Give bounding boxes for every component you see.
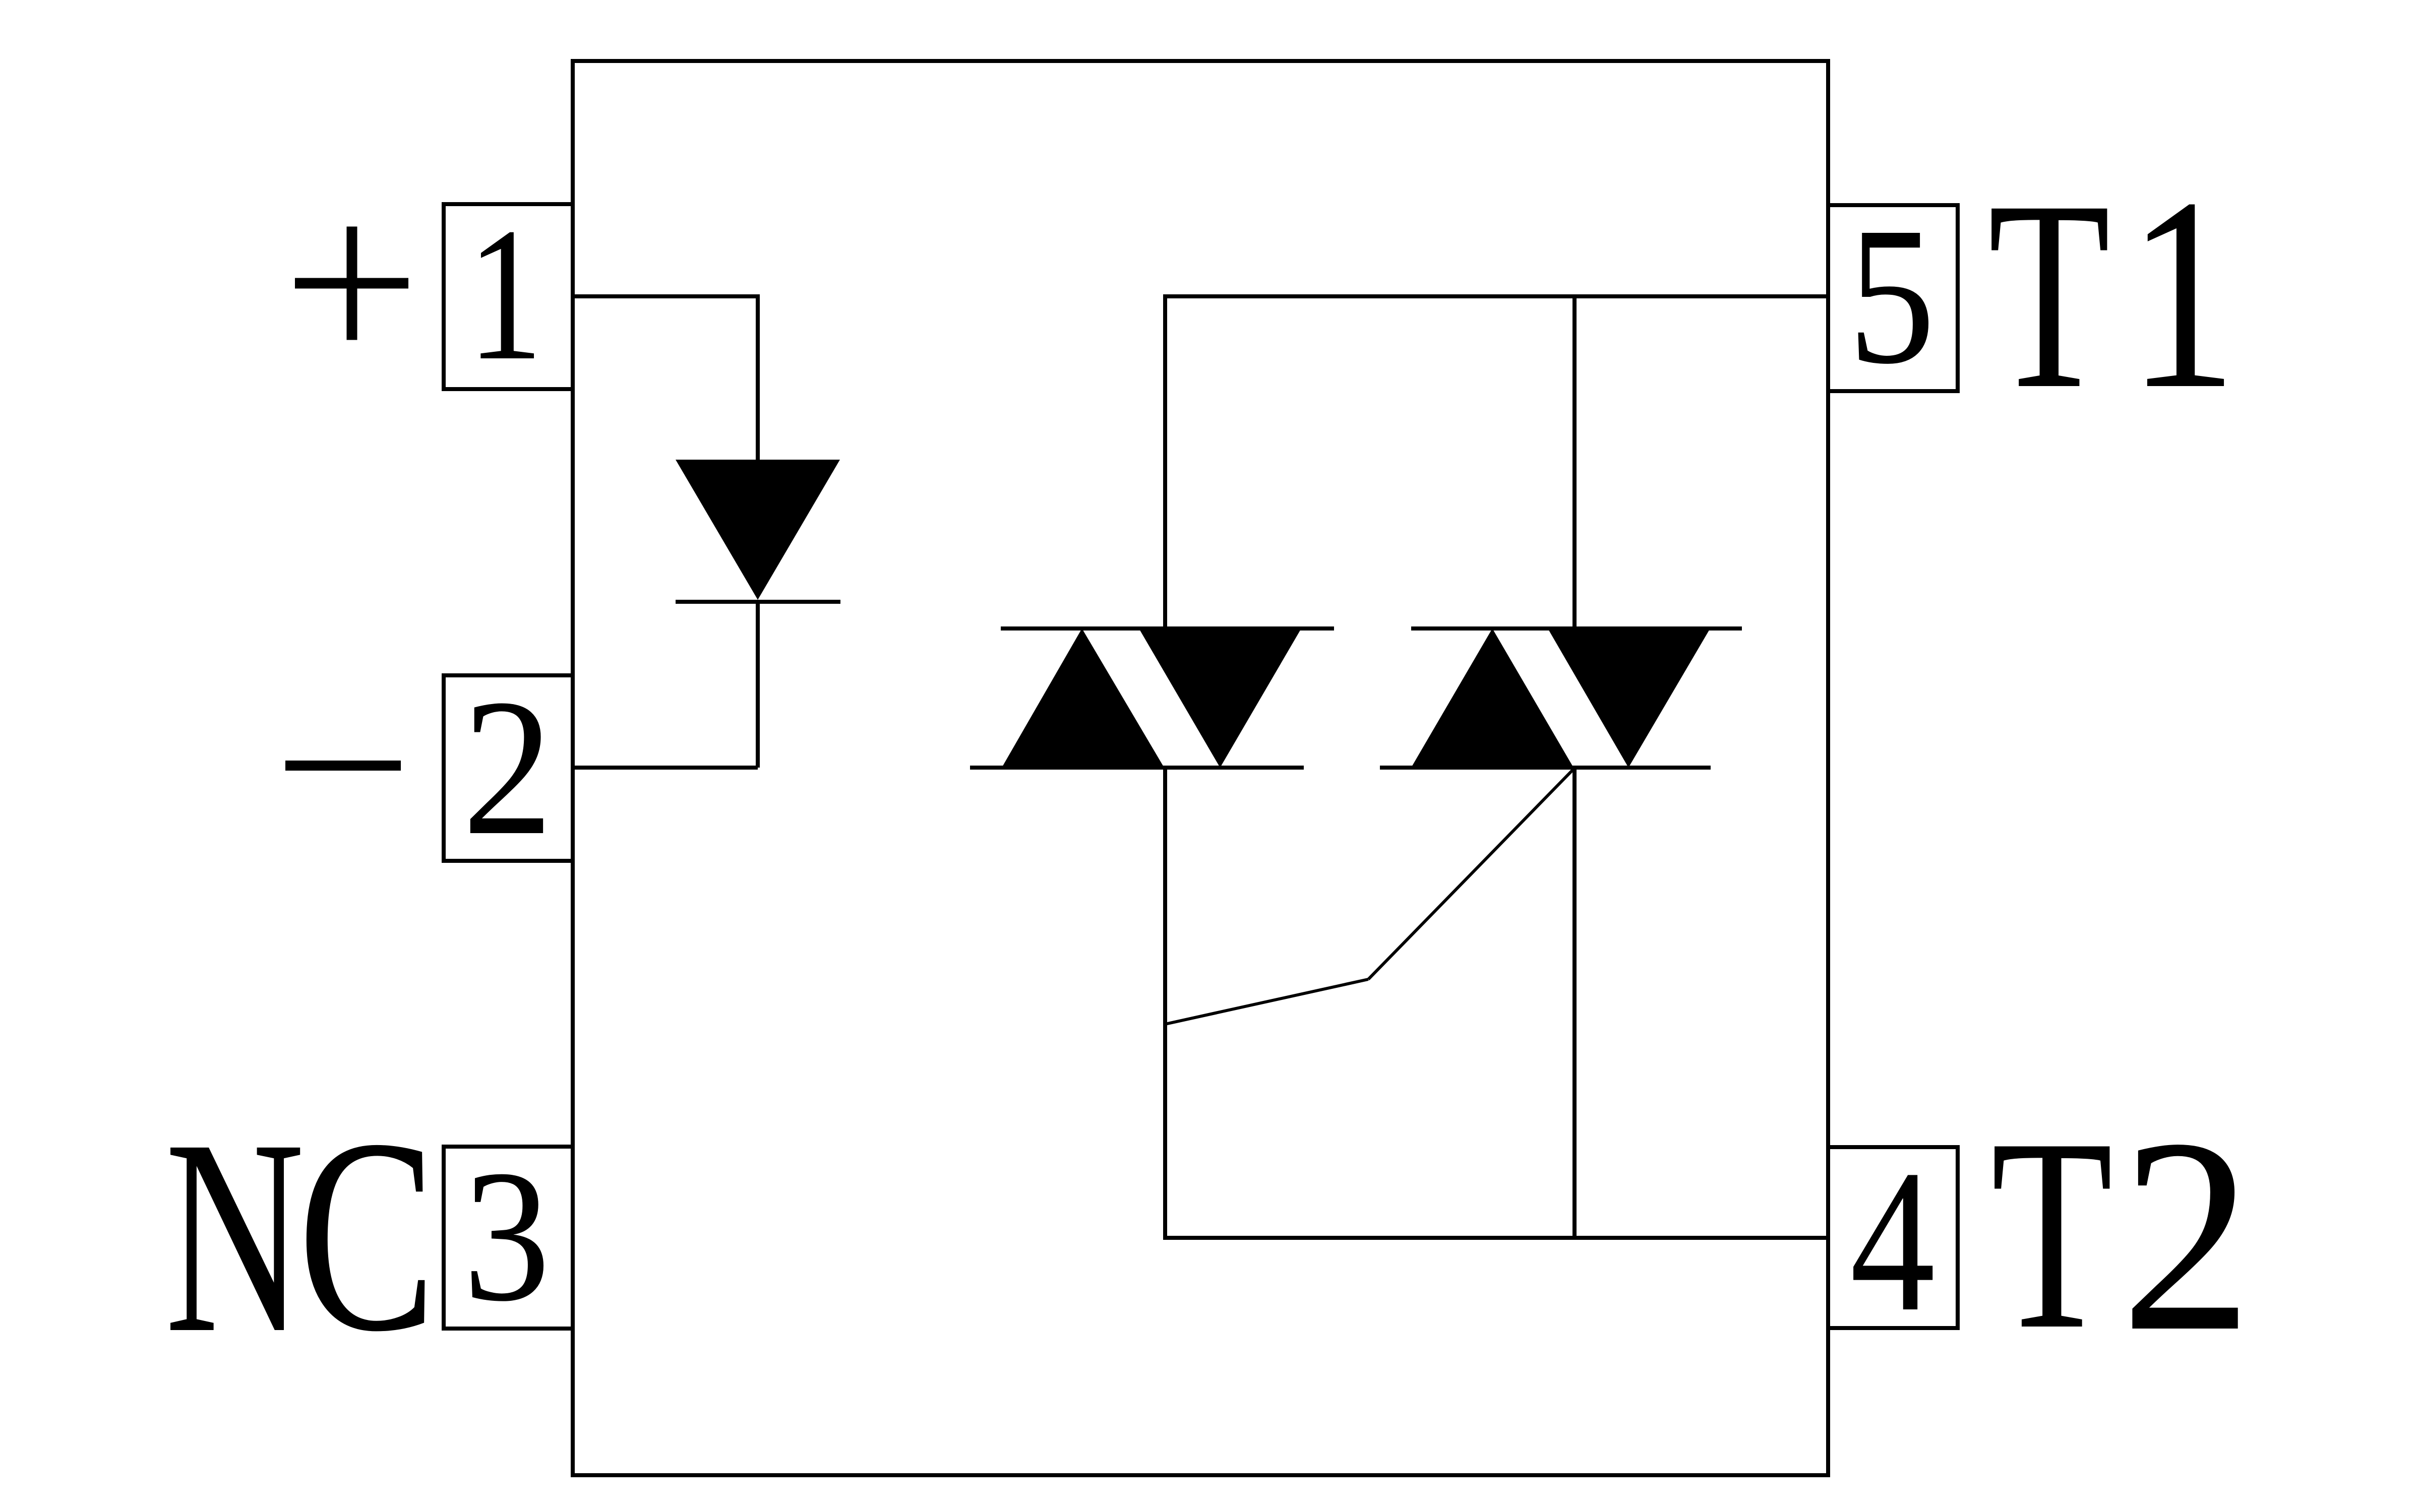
triac Q1 downward thyristor triangle bbox=[1139, 628, 1301, 768]
wire inner bottom rail to pin 4 bbox=[1165, 1236, 1828, 1240]
svg-text:2: 2 bbox=[462, 659, 553, 876]
label T1 bbox=[1988, 141, 2237, 446]
wire LED anode vertical bbox=[756, 294, 760, 460]
pin 4 box bbox=[1828, 1147, 1958, 1328]
wire LED cathode vertical bbox=[756, 602, 760, 768]
cathode label - bbox=[285, 761, 401, 771]
svg-text:5: 5 bbox=[1848, 186, 1935, 405]
triac Q2 downward thyristor triangle bbox=[1548, 628, 1710, 768]
triac Q1 MT1 rail bbox=[970, 766, 1304, 770]
triac Q1 MT2 rail bbox=[1001, 626, 1334, 631]
LED D1 cathode bar bbox=[676, 600, 840, 604]
wire inner left lower segment bbox=[1163, 768, 1167, 1240]
anode label + bbox=[295, 227, 408, 340]
triac Q2 MT2 rail bbox=[1411, 626, 1742, 631]
triac Q2 upward thyristor triangle bbox=[1411, 628, 1574, 768]
wire inner top rail to pin 5 bbox=[1165, 294, 1828, 298]
label T2 bbox=[1991, 1082, 2253, 1389]
svg-text:N: N bbox=[165, 1082, 305, 1391]
wire LED cathode to pin2 bbox=[573, 766, 758, 770]
svg-text:T: T bbox=[1988, 145, 2110, 445]
triac Q2 gate lead shallow segment bbox=[1165, 979, 1368, 1024]
svg-text:T: T bbox=[1991, 1082, 2113, 1387]
wire mid vertical upper segment bbox=[1572, 294, 1577, 628]
svg-text:C: C bbox=[298, 1082, 436, 1389]
label NC bbox=[165, 1082, 436, 1391]
wire mid vertical lower segment bbox=[1572, 768, 1577, 1240]
triac Q2 MT1 rail bbox=[1380, 766, 1711, 770]
svg-text:1: 1 bbox=[467, 188, 543, 400]
pin 2 box bbox=[444, 675, 573, 861]
pin 1 box bbox=[444, 204, 573, 389]
svg-text:1: 1 bbox=[2128, 141, 2237, 446]
wire inner left upper segment bbox=[1163, 294, 1167, 628]
wire pin1 to LED anode bbox=[573, 294, 758, 298]
IC package outline U1 bbox=[573, 61, 1828, 1475]
pin 5 box bbox=[1828, 205, 1958, 391]
svg-text:3: 3 bbox=[463, 1131, 551, 1341]
LED D1 anode triangle bbox=[676, 460, 840, 600]
svg-text:4: 4 bbox=[1850, 1127, 1935, 1354]
triac Q1 upward thyristor triangle bbox=[1002, 628, 1164, 768]
svg-text:2: 2 bbox=[2121, 1082, 2253, 1389]
pin 3 box bbox=[444, 1147, 573, 1329]
triac Q2 gate lead diagonal segment bbox=[1368, 768, 1575, 979]
